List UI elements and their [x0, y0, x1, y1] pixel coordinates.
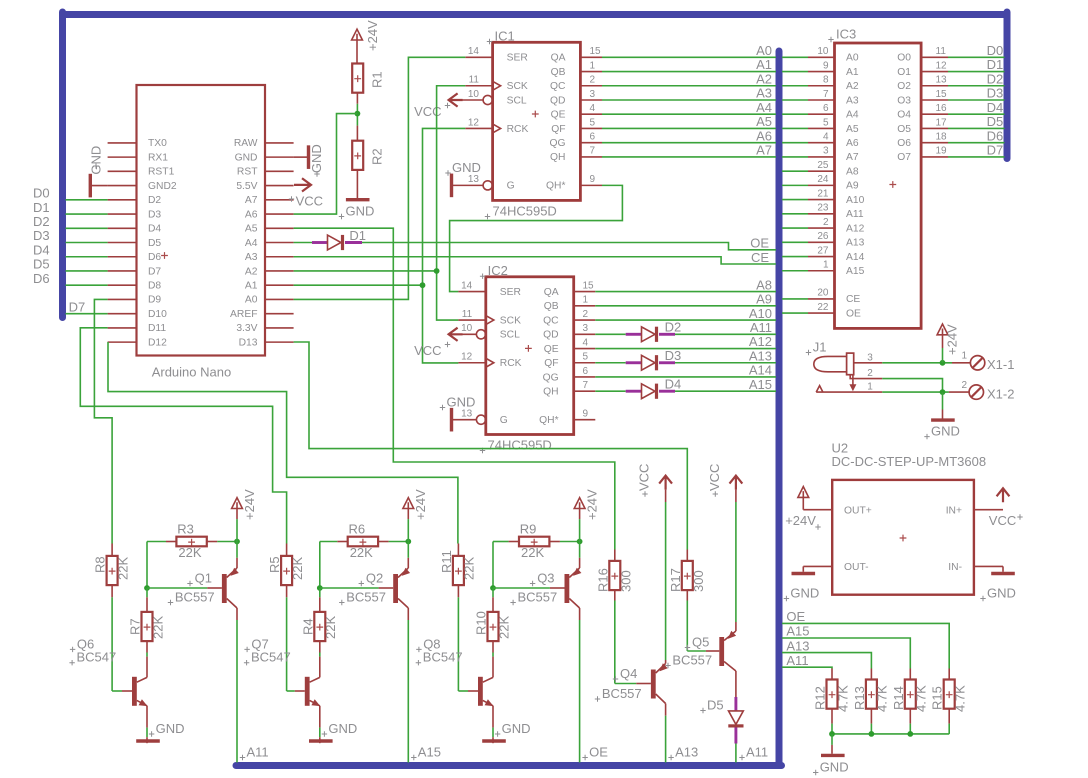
- wire IC3 O1 to bus (net D1): [948, 71, 1005, 73]
- junction node R1/R2/A6: [355, 111, 361, 117]
- wire arduino A1 to RCK line: [294, 284, 423, 286]
- svg-text:D11: D11: [148, 323, 166, 334]
- wire bus to IC3 A13: [782, 241, 808, 243]
- wire bus to IC3 A10: [782, 199, 808, 201]
- svg-text:D3: D3: [987, 86, 1004, 101]
- resistor R8 22K (base feed): [111, 544, 113, 557]
- svg-text:25: 25: [817, 160, 829, 171]
- svg-text:22K: 22K: [462, 557, 477, 580]
- wire net D2 from bus to arduino pin D4: [66, 227, 108, 229]
- svg-text:QH*: QH*: [546, 181, 565, 192]
- IC3 pin A6 (4) stub: [808, 142, 835, 144]
- svg-text:1: 1: [961, 351, 967, 362]
- wire net D6 from bus to arduino pin D8: [66, 284, 108, 286]
- IC1 pin QH* (9) stub: [580, 184, 602, 186]
- IC3 pin A15 (1) stub: [808, 270, 835, 272]
- svg-text:GND: GND: [156, 721, 185, 736]
- resistor R2: [356, 126, 358, 141]
- svg-text:D0: D0: [33, 186, 50, 201]
- wire R7 to Q6 collector: [146, 641, 148, 653]
- svg-text:GND: GND: [89, 146, 104, 175]
- svg-text:12: 12: [468, 117, 480, 128]
- svg-text:D3: D3: [148, 209, 161, 220]
- IC2 pin QF (5) stub: [574, 362, 596, 364]
- svg-text:+24V: +24V: [242, 489, 257, 520]
- svg-text:A13: A13: [846, 238, 865, 249]
- svg-text:74HC595D: 74HC595D: [488, 438, 552, 453]
- wire IC1 QH* to IC2 SER (cascade): [450, 185, 623, 291]
- bus: middle vertical segment: [776, 51, 783, 766]
- wire IC2 QE to bus (net A12): [595, 348, 776, 350]
- svg-text:A15: A15: [418, 745, 441, 760]
- IC1 pin G (13) inverted stub to GND: [483, 181, 492, 190]
- svg-text:1: 1: [583, 295, 589, 306]
- +24V supply symbol block 3: [574, 498, 585, 509]
- svg-text:A15: A15: [749, 377, 772, 392]
- wire IC2 QF to diode D3: [595, 362, 625, 364]
- svg-text:R10: R10: [474, 611, 489, 635]
- svg-text:A12: A12: [846, 223, 865, 234]
- svg-text:RST: RST: [237, 167, 258, 178]
- wire net D11: arduino D11 to R5: [80, 328, 286, 544]
- svg-text:BC557: BC557: [346, 590, 386, 605]
- svg-text:A8: A8: [756, 277, 772, 292]
- wire D1 to bus (net OE) with jog: [362, 243, 776, 250]
- svg-text:A5: A5: [245, 224, 258, 235]
- ground symbol at Q8 emitter: [492, 706, 494, 728]
- svg-text:22K: 22K: [496, 616, 511, 639]
- svg-text:SCL: SCL: [500, 330, 520, 341]
- svg-text:D1: D1: [33, 200, 50, 215]
- svg-text:9: 9: [823, 60, 829, 71]
- svg-text:6: 6: [590, 131, 596, 142]
- IC3 pin A10 (21) stub: [808, 199, 835, 201]
- svg-text:QA: QA: [551, 53, 566, 64]
- screw terminal X1-1: [952, 362, 970, 364]
- arduino origin cross: [161, 252, 168, 259]
- J1 pin 3 stub: [854, 362, 883, 364]
- ground symbol at Q7 emitter: [319, 706, 321, 728]
- wire Q2 collector to bottom bus (net A15): [407, 608, 409, 620]
- svg-text:R16: R16: [595, 568, 610, 592]
- IC3 pin A14 (27) stub: [808, 256, 835, 258]
- diode D1 highlight wire left: [312, 241, 328, 244]
- IC3 pin O2 (13) stub: [921, 85, 948, 87]
- diode D3 highlight wire left: [626, 361, 642, 364]
- IC3 pin O5 (17) stub: [921, 127, 948, 129]
- svg-text:BC557: BC557: [518, 590, 558, 605]
- arduino pin GND2 (left) stub: [108, 185, 137, 187]
- svg-text:15: 15: [590, 46, 602, 57]
- svg-text:G: G: [500, 415, 508, 426]
- transistor Q2 BC557 (PNP): [393, 574, 398, 603]
- arduino pin A2 (right) stub: [265, 270, 294, 272]
- diode D2 highlight wire left: [626, 333, 642, 336]
- svg-text:R6: R6: [349, 522, 366, 537]
- svg-text:22K: 22K: [521, 545, 544, 560]
- arduino pin D9 (left) stub: [108, 298, 137, 300]
- ground symbol at IC1 G pin (rotated): [450, 174, 453, 198]
- IC1 pin SCK (11) stub with clock mark: [465, 85, 492, 87]
- resistor R7 22K: [146, 588, 148, 597]
- svg-text:4.7K: 4.7K: [914, 685, 929, 712]
- svg-text:D2: D2: [148, 195, 161, 206]
- wire R6 left to base junction: [337, 541, 347, 543]
- svg-text:3: 3: [583, 323, 589, 334]
- svg-text:QH: QH: [550, 152, 565, 163]
- svg-text:D10: D10: [148, 309, 167, 320]
- svg-text:QH*: QH*: [539, 415, 558, 426]
- svg-text:6: 6: [823, 103, 829, 114]
- svg-text:CE: CE: [751, 250, 769, 265]
- svg-text:D1: D1: [349, 228, 366, 243]
- svg-text:A11: A11: [750, 320, 772, 335]
- ground symbol below X1-2 junction: [942, 392, 944, 409]
- svg-text:20: 20: [817, 288, 829, 299]
- diode D2 highlight wire right: [659, 333, 675, 336]
- svg-text:A1: A1: [756, 57, 772, 72]
- svg-text:A13: A13: [786, 638, 809, 653]
- svg-text:RAW: RAW: [234, 138, 258, 149]
- IC2 pin QD (3) stub: [574, 333, 596, 335]
- arduino pin D2 (left) stub: [108, 199, 137, 201]
- wire IC3 O0 to bus (net D0): [948, 56, 1005, 58]
- svg-text:O5: O5: [897, 124, 911, 135]
- svg-text:5: 5: [583, 352, 589, 363]
- svg-text:QG: QG: [549, 138, 565, 149]
- svg-text:GND: GND: [931, 424, 960, 439]
- ground symbol GND at arduino right GND pin (rotated): [294, 156, 309, 158]
- svg-text:10: 10: [817, 46, 829, 57]
- wire net A5: arduino A5 to R16: [294, 228, 615, 549]
- resistor R15 4.7K: [948, 669, 950, 680]
- svg-text:22K: 22K: [290, 557, 305, 580]
- svg-text:R3: R3: [177, 522, 194, 537]
- svg-text:A4: A4: [245, 238, 258, 249]
- svg-text:19: 19: [936, 146, 948, 157]
- svg-text:Q3: Q3: [537, 571, 554, 586]
- +24V supply symbol block 2: [403, 498, 414, 509]
- wire R10 to Q8 collector: [492, 641, 494, 653]
- diode D1 highlight wire right: [345, 241, 362, 244]
- svg-text:R4: R4: [300, 618, 315, 635]
- IC2 pin SCK (11) stub with clock mark: [458, 319, 485, 321]
- arduino pin RST (right) stub: [265, 170, 294, 172]
- svg-text:24: 24: [817, 174, 829, 185]
- bus: top horizontal segment: [63, 11, 1008, 18]
- svg-text:14: 14: [461, 280, 473, 291]
- IC3 pin A5 (5) stub: [808, 127, 835, 129]
- transistor Q1 BC557 (PNP): [222, 574, 227, 603]
- svg-text:R1: R1: [370, 71, 385, 88]
- svg-text:QH: QH: [543, 387, 558, 398]
- svg-text:14: 14: [468, 46, 480, 57]
- wire IC1 QB to bus (net A1): [602, 71, 776, 73]
- wire base feed R8 to Q6 base: [111, 585, 113, 597]
- svg-text:5: 5: [590, 117, 596, 128]
- resistor R17 300 (Q5 base): [686, 550, 688, 561]
- svg-text:A7: A7: [245, 195, 258, 206]
- svg-text:R13: R13: [852, 686, 867, 710]
- wire IC1 QG to bus (net A6): [602, 142, 776, 144]
- U2 origin cross: [900, 535, 907, 542]
- IC1 pin QF (5) stub: [580, 127, 602, 129]
- svg-text:8: 8: [823, 75, 829, 86]
- svg-text:D5: D5: [987, 114, 1004, 129]
- svg-text:VCC: VCC: [414, 343, 441, 358]
- svg-text:D0: D0: [987, 43, 1004, 58]
- svg-text:R17: R17: [668, 568, 683, 592]
- svg-text:R5: R5: [267, 556, 282, 573]
- wire IC1 QF to bus (net A5): [602, 127, 776, 129]
- arduino pin A4 (right) stub: [265, 242, 294, 244]
- svg-text:QA: QA: [544, 287, 559, 298]
- IC1 pin SCL (10) inverted stub to VCC: [483, 95, 492, 104]
- svg-text:A13: A13: [749, 348, 772, 363]
- svg-text:4: 4: [823, 131, 829, 142]
- svg-text:GND: GND: [987, 586, 1016, 601]
- svg-text:D5: D5: [707, 698, 724, 713]
- svg-text:O2: O2: [897, 81, 911, 92]
- arduino pin A6 (right) stub: [265, 213, 294, 215]
- svg-text:O1: O1: [897, 67, 911, 78]
- diode D4: [642, 384, 656, 399]
- wire bus to IC3 A0: [782, 56, 808, 58]
- IC3 pin A0 (10) stub: [808, 56, 835, 58]
- svg-text:2: 2: [583, 309, 589, 320]
- wire J1 pin1 to X1-2 (GND net): [882, 391, 949, 393]
- svg-text:13: 13: [461, 408, 473, 419]
- svg-text:A2: A2: [756, 71, 772, 86]
- wire net OE from bus to R15: [782, 623, 949, 668]
- svg-text:QB: QB: [551, 67, 566, 78]
- svg-text:AREF: AREF: [230, 309, 257, 320]
- svg-text:X1-1: X1-1: [987, 357, 1014, 372]
- arduino pin AREF (right) stub: [265, 313, 294, 315]
- resistor R11 22K (base feed): [457, 544, 459, 557]
- svg-text:A7: A7: [756, 143, 772, 158]
- svg-text:A8: A8: [846, 166, 859, 177]
- transistor Q7 BC547 (NPN): [305, 677, 310, 706]
- wire net A13 from bus to R13: [782, 653, 871, 669]
- wire bus to IC3 A5: [782, 127, 808, 129]
- R12 bottom lead: [831, 709, 833, 724]
- svg-text:QC: QC: [550, 81, 566, 92]
- svg-text:QF: QF: [551, 124, 565, 135]
- wire IC1 QH to bus (net A7): [602, 156, 776, 158]
- ground rail joining R12-R15: [832, 733, 949, 735]
- svg-text:D4: D4: [33, 242, 50, 257]
- svg-text:9: 9: [583, 408, 589, 419]
- wire net RCK: IC1 RCK down to IC2 RCK: [423, 128, 466, 362]
- svg-text:2: 2: [961, 380, 967, 391]
- svg-text:D2: D2: [987, 71, 1004, 86]
- svg-text:DC-DC-STEP-UP-MT3608: DC-DC-STEP-UP-MT3608: [832, 454, 987, 469]
- svg-text:R9: R9: [520, 522, 537, 537]
- wire bus to IC3 CE: [782, 298, 808, 300]
- arduino pin D13 (right) stub: [265, 341, 294, 343]
- svg-text:R8: R8: [93, 556, 108, 573]
- R15 bottom lead: [948, 709, 950, 724]
- svg-text:OE: OE: [750, 236, 769, 251]
- +24V supply symbol block 1: [232, 498, 243, 509]
- arduino pin D3 (left) stub: [108, 213, 137, 215]
- arduino pin A3 (right) stub: [265, 256, 294, 258]
- svg-text:A14: A14: [749, 363, 772, 378]
- IC1 pin QA (15) stub: [580, 56, 602, 58]
- svg-text:SCK: SCK: [507, 81, 528, 92]
- svg-text:A6: A6: [846, 138, 859, 149]
- diode D1: [328, 235, 342, 250]
- svg-text:O3: O3: [897, 95, 911, 106]
- arduino pin D11 (left) stub: [108, 327, 137, 329]
- wire bus to IC3 A12: [782, 227, 808, 229]
- wire bus to IC3 A8: [782, 170, 808, 172]
- svg-text:300: 300: [691, 570, 706, 592]
- wire Q4 collector to bottom bus (net A13): [665, 704, 667, 716]
- IC1 origin cross: [532, 111, 539, 118]
- svg-text:10: 10: [461, 323, 473, 334]
- svg-text:A14: A14: [846, 252, 865, 263]
- IC2 pin QG (6) stub: [574, 376, 596, 378]
- IC3 pin A9 (24) stub: [808, 184, 835, 186]
- svg-text:G: G: [507, 181, 515, 192]
- svg-text:TX0: TX0: [148, 138, 167, 149]
- svg-text:2: 2: [867, 368, 873, 379]
- arduino pin TX0 (left) stub: [108, 142, 137, 144]
- svg-text:D5: D5: [148, 238, 161, 249]
- bus: bottom horizontal segment: [236, 762, 782, 769]
- wire bus to IC3 A3: [782, 99, 808, 101]
- IC1 pin QE (4) stub: [580, 113, 602, 115]
- diode D5 highlight wire top: [734, 697, 737, 711]
- wire IC2 QC to bus (net A10): [595, 319, 776, 321]
- svg-text:VCC: VCC: [637, 464, 652, 491]
- resistor R14 4.7K: [909, 669, 911, 680]
- svg-text:A3: A3: [245, 252, 258, 263]
- svg-text:BC557: BC557: [672, 653, 712, 668]
- svg-text:22K: 22K: [350, 545, 373, 560]
- IC3 pin O0 (11) stub: [921, 56, 948, 58]
- resistor R13 4.7K: [870, 669, 872, 680]
- memory IC3 body: [835, 43, 922, 328]
- resistor R3 22K: [176, 537, 206, 547]
- svg-text:A2: A2: [846, 81, 859, 92]
- svg-text:15: 15: [583, 280, 595, 291]
- svg-text:A15: A15: [786, 624, 809, 639]
- svg-text:1: 1: [590, 60, 596, 71]
- arduino pin A1 (right) stub: [265, 284, 294, 286]
- IC2 pin QH* (9) stub unconnected: [574, 419, 596, 421]
- wire IC2 QD to diode D2: [595, 333, 625, 335]
- wire diode D2 to bus (net A11): [675, 333, 776, 335]
- ground symbol GND at arduino GND2 pin (rotated): [90, 185, 107, 187]
- arduino pin D4 (left) stub: [108, 227, 137, 229]
- svg-text:BC557: BC557: [175, 590, 215, 605]
- J1 center pin arrow mark: [852, 375, 854, 385]
- wire arduino A3 to bus (net CE) with jog: [294, 257, 776, 264]
- svg-text:22K: 22K: [150, 616, 165, 639]
- svg-text:6: 6: [583, 366, 589, 377]
- wire IC3 O6 to bus (net D6): [948, 142, 1005, 144]
- svg-text:R14: R14: [891, 686, 906, 710]
- arduino pin D5 (left) stub: [108, 242, 137, 244]
- arduino pin D7 (left) stub: [108, 270, 137, 272]
- svg-text:A2: A2: [245, 266, 258, 277]
- wire R17 to Q5 base: [686, 590, 688, 600]
- svg-text:15: 15: [936, 89, 948, 100]
- svg-text:21: 21: [817, 188, 829, 199]
- IC3 pin OE (22) stub: [808, 312, 835, 314]
- wire net D7 from bus to arduino pin D10: [66, 313, 108, 315]
- resistor R9 22K: [519, 537, 549, 547]
- wire net D4 from bus to arduino pin D6: [66, 256, 108, 258]
- svg-text:23: 23: [817, 203, 829, 214]
- svg-text:A0: A0: [846, 53, 859, 64]
- svg-text:9: 9: [590, 174, 596, 185]
- diode D2: [642, 327, 656, 342]
- IC2 pin G (13) inverted stub to GND: [476, 415, 485, 424]
- arduino pin 5.5V (right) stub: [265, 185, 294, 187]
- junction node base of Q1: [144, 585, 150, 591]
- svg-text:QG: QG: [543, 372, 559, 383]
- +24V supply symbol above X1-1: [937, 324, 948, 335]
- diode D4 highlight wire left: [626, 390, 642, 393]
- svg-text:D4: D4: [665, 376, 682, 391]
- svg-text:OE: OE: [846, 308, 861, 319]
- svg-text:GND: GND: [452, 160, 481, 175]
- resistor R1: [352, 64, 363, 93]
- wire net D5 from bus to arduino pin D7: [66, 270, 108, 272]
- IC2 pin RCK (12) stub with clock mark: [458, 362, 485, 364]
- IC3 pin O3 (15) stub: [921, 99, 948, 101]
- svg-text:SCL: SCL: [507, 95, 527, 106]
- wire IC3 O5 to bus (net D5): [948, 127, 1005, 129]
- svg-text:D5: D5: [33, 257, 50, 272]
- svg-text:RX1: RX1: [148, 152, 168, 163]
- svg-text:3: 3: [823, 146, 829, 157]
- R13 bottom lead: [870, 709, 872, 724]
- wire arduino A2 to SCK line: [294, 270, 437, 272]
- svg-text:GND: GND: [820, 760, 849, 775]
- resistor R6 22K: [348, 537, 378, 547]
- resistor R4 22K: [319, 588, 321, 597]
- vcc arrow symbol at IC2 SCL: [449, 328, 463, 341]
- +24V supply symbol at U2 OUT+: [798, 487, 809, 498]
- arduino pin 3.3V (right) stub: [265, 327, 294, 329]
- svg-text:4.7K: 4.7K: [953, 685, 968, 712]
- svg-text:R2: R2: [370, 148, 385, 165]
- wire bus to IC3 A15: [782, 270, 808, 272]
- wire bus to IC3 A9: [782, 184, 808, 186]
- svg-text:26: 26: [817, 231, 829, 242]
- IC3 pin O6 (18) stub: [921, 142, 948, 144]
- IC1 pin QB (1) stub: [580, 71, 602, 73]
- svg-text:A6: A6: [245, 209, 258, 220]
- svg-text:+24V: +24V: [785, 513, 816, 528]
- ground symbol below R2: [356, 170, 358, 198]
- svg-text:D7: D7: [987, 143, 1004, 158]
- junction node +24V block 3: [577, 539, 583, 545]
- svg-text:BC547: BC547: [251, 650, 291, 665]
- svg-text:A1: A1: [846, 67, 859, 78]
- vcc arrow symbol at IC1 SCL: [449, 93, 463, 106]
- arduino pin A7 (right) stub: [265, 199, 294, 201]
- svg-text:Q2: Q2: [366, 571, 383, 586]
- svg-text:D9: D9: [148, 295, 161, 306]
- junction node R14 gnd rail: [907, 731, 913, 737]
- svg-text:5.5V: 5.5V: [236, 181, 257, 192]
